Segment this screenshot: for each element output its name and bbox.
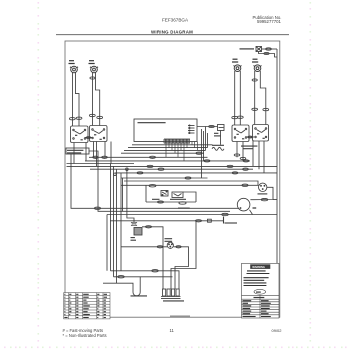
TOD thermal switch bbox=[167, 242, 173, 248]
wire P1 right lead bbox=[76, 73, 80, 127]
switch wire row bbox=[146, 201, 196, 203]
TOD wire bbox=[121, 246, 167, 248]
wire bus row 9 bbox=[90, 168, 253, 170]
switch labels bbox=[152, 198, 186, 200]
connectors above LH switches bbox=[69, 114, 102, 120]
left feeder wire L1 bbox=[71, 154, 239, 208]
wire link S1-S2 bbox=[85, 137, 93, 139]
latch motor connector bbox=[131, 223, 137, 226]
wire bus row 1 bbox=[132, 144, 213, 146]
latch switch bbox=[172, 192, 183, 198]
left feeder wire N bbox=[89, 151, 230, 211]
wire code table (bottom left) bbox=[64, 293, 110, 319]
wire P3 leads bbox=[234, 71, 236, 125]
lower feed wire 1 bbox=[111, 271, 180, 289]
connectors below RH switches bbox=[234, 154, 246, 160]
bake element feed bbox=[103, 282, 133, 285]
oven sensor RTD bbox=[214, 125, 224, 136]
legend box (bottom right) bbox=[242, 263, 280, 318]
surface unit P3 (right front) bbox=[234, 65, 242, 72]
page number bbox=[170, 328, 175, 333]
bake element bbox=[131, 277, 148, 296]
wire fuse lower bbox=[259, 52, 278, 58]
door light switch bbox=[161, 191, 168, 197]
convection motor M1 bbox=[237, 198, 256, 211]
wire fuse to right edge bbox=[262, 48, 278, 50]
wire bus row 8 bbox=[67, 165, 278, 167]
connectors above RH switches bbox=[232, 108, 269, 119]
connector on P2 lead bbox=[90, 77, 95, 79]
wire bus row 7 bbox=[67, 163, 135, 165]
top right fuse label bbox=[240, 48, 255, 50]
connector on left feeder bbox=[95, 207, 101, 209]
inline fuse on light wire bbox=[208, 219, 212, 222]
pin strip fan-out drops bbox=[166, 142, 198, 161]
svg-text:WIRING DIAGRAM: WIRING DIAGRAM bbox=[151, 29, 193, 34]
header publication number bbox=[253, 15, 282, 24]
LH switch note box bbox=[66, 148, 89, 154]
wire drop bbox=[122, 178, 124, 211]
svg-text:09/02: 09/02 bbox=[272, 328, 283, 333]
latch motor wire bbox=[142, 227, 163, 289]
infinite switch S1 (left) bbox=[71, 126, 89, 143]
header rule bbox=[56, 34, 289, 36]
broil element label bbox=[212, 144, 224, 146]
diagram frame bbox=[65, 41, 280, 317]
svg-text:WARNING: WARNING bbox=[252, 265, 265, 269]
U1 pin strip connector bbox=[164, 139, 190, 143]
svg-text:FEF367BGA: FEF367BGA bbox=[162, 17, 189, 22]
electronic oven control U1 bbox=[134, 119, 197, 142]
wire bus row 6 bbox=[85, 160, 250, 162]
wire bus row 3 bbox=[124, 149, 206, 151]
wire P4 leads bbox=[254, 71, 256, 125]
surface unit P1 label bbox=[69, 61, 75, 64]
latch label bbox=[178, 207, 190, 209]
wire bus row 4 bbox=[121, 152, 204, 154]
wire P2 left lead bbox=[92, 73, 94, 126]
wire bus row 2 bbox=[128, 147, 208, 149]
connector on P4 lead bbox=[252, 79, 257, 81]
surface unit P2 label bbox=[89, 61, 95, 64]
date code bbox=[272, 328, 283, 333]
motor return wire bbox=[107, 214, 277, 216]
drawing number bbox=[170, 315, 190, 317]
wire bundle vertical 4 bbox=[120, 173, 122, 271]
RH switch note bbox=[241, 146, 257, 149]
footnote fast moving parts bbox=[63, 328, 107, 338]
door latch motor bbox=[131, 228, 143, 241]
lamp link wires bbox=[250, 187, 273, 199]
lower feed wire 2 bbox=[114, 276, 173, 278]
terminal block TB bbox=[161, 289, 184, 301]
wire P2 right lead bbox=[96, 73, 100, 126]
wire P1 left lead bbox=[72, 73, 74, 127]
U1 right leads bbox=[201, 129, 203, 178]
TOD label bbox=[165, 239, 173, 242]
infinite switch S4 (right) bbox=[253, 125, 269, 142]
wire bus row 5 bbox=[89, 156, 208, 158]
wire bus row 12 bbox=[124, 181, 258, 185]
svg-text:11: 11 bbox=[170, 328, 175, 333]
surface unit P3 label bbox=[232, 59, 238, 62]
wire bus row 10 bbox=[115, 172, 277, 174]
infinite switch S3 (right) bbox=[232, 125, 249, 142]
header model number FEF367BGA bbox=[162, 17, 189, 22]
right edge bus wire bbox=[276, 49, 278, 263]
broil element bbox=[212, 147, 224, 150]
wire bundle vertical 2 bbox=[113, 166, 115, 276]
leads below RH switches bbox=[236, 142, 238, 158]
wire bundle vertical 5 bbox=[127, 169, 134, 222]
infinite switch S2 (left) bbox=[90, 126, 108, 142]
wire bus row 11 bbox=[121, 177, 208, 179]
oven lamp DS1 bbox=[258, 183, 268, 194]
surface unit P1 (left front) bbox=[70, 66, 78, 73]
leads below LH switches bbox=[73, 143, 75, 164]
title WIRING DIAGRAM bbox=[151, 29, 193, 34]
surface unit P4 label bbox=[252, 59, 258, 62]
wire bundle vertical 1 bbox=[110, 164, 112, 271]
thermal fuse bbox=[256, 47, 262, 52]
surface unit P4 (right rear) bbox=[254, 65, 262, 72]
oven light switch wire bbox=[110, 220, 224, 222]
oven lamp feed bbox=[121, 184, 259, 186]
svg-text:5995277701: 5995277701 bbox=[257, 19, 282, 24]
svg-text:* = Non-Illustrated Parts: * = Non-Illustrated Parts bbox=[63, 333, 107, 338]
oven sensor wire from U1 bbox=[197, 126, 218, 128]
wire link S3-S4 bbox=[247, 136, 255, 138]
surface unit P2 (left rear) bbox=[90, 66, 98, 73]
wire bundle vertical 3 bbox=[116, 169, 118, 283]
